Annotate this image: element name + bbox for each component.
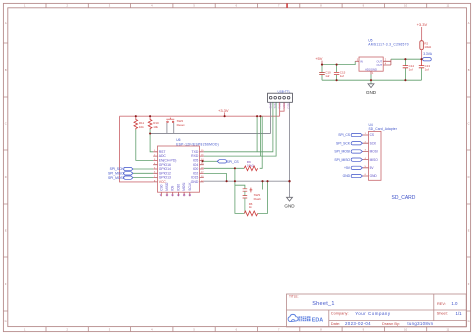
svg-text:G: G bbox=[5, 319, 7, 323]
svg-text:SPI_CS: SPI_CS bbox=[338, 133, 351, 137]
wire RXD to USB bbox=[204, 103, 276, 157]
ground under chip bbox=[284, 181, 295, 208]
svg-text:TITLE:: TITLE: bbox=[289, 295, 299, 299]
net port GND sd bbox=[343, 174, 363, 178]
svg-text:SPI_CS: SPI_CS bbox=[227, 160, 240, 164]
svg-text:10k: 10k bbox=[139, 125, 144, 129]
transistor U6 ESP-12F bbox=[153, 138, 219, 197]
svg-text:IO9: IO9 bbox=[171, 185, 175, 190]
svg-text:Reset: Reset bbox=[177, 123, 185, 127]
svg-text:tung3108vn: tung3108vn bbox=[407, 321, 433, 326]
net port SPI_MOSI bbox=[108, 176, 133, 180]
wire SPI rows bbox=[133, 169, 153, 178]
capacitor C14 bbox=[403, 59, 408, 80]
resistor R8 bbox=[244, 211, 257, 216]
svg-text:OUT: OUT bbox=[377, 63, 383, 67]
switch SW4 bbox=[166, 118, 184, 127]
wire rail drop TXD bbox=[256, 116, 258, 152]
wire main gnd line bbox=[204, 180, 291, 182]
capacitor C10 bbox=[319, 65, 324, 81]
svg-text:C: C bbox=[5, 122, 7, 126]
wire VCC feed bbox=[120, 116, 154, 182]
svg-text:EDA: EDA bbox=[312, 318, 323, 324]
svg-text:1uf: 1uf bbox=[340, 74, 344, 78]
svg-text:MISO: MISO bbox=[165, 182, 169, 191]
wire SPI_CS drop bbox=[234, 168, 236, 181]
net port SPI_SCK bbox=[110, 167, 133, 171]
wire 3.3V out rail bbox=[391, 58, 422, 60]
title block bbox=[287, 294, 467, 327]
net port SPI_CS sd bbox=[338, 133, 362, 137]
resistor R2 bbox=[420, 41, 432, 60]
net port SPI_MISO sd bbox=[334, 158, 362, 162]
svg-text:G: G bbox=[468, 319, 470, 323]
svg-text:+5V: +5V bbox=[315, 56, 323, 61]
svg-text:C: C bbox=[468, 122, 470, 126]
wire rail drop R9 bbox=[260, 116, 263, 168]
svg-text:1uf: 1uf bbox=[325, 74, 329, 78]
capacitor C15 bbox=[334, 65, 339, 81]
svg-text:3.3VA: 3.3VA bbox=[423, 52, 433, 56]
net port SPI_SCK sd bbox=[336, 141, 362, 145]
junction dots chip area bbox=[135, 115, 291, 182]
wire TXD to USB bbox=[204, 103, 273, 152]
power flag +3.3V chip bbox=[218, 108, 229, 116]
svg-text:REV:: REV: bbox=[437, 301, 446, 306]
svg-text:SCK: SCK bbox=[370, 141, 377, 145]
svg-text:B: B bbox=[468, 68, 470, 72]
switch SW3 circuit bbox=[235, 181, 268, 213]
wire SW4 net bbox=[150, 103, 270, 134]
power flag +3.3V bbox=[417, 22, 428, 41]
svg-text:Company:: Company: bbox=[331, 311, 349, 316]
svg-text:A: A bbox=[5, 21, 7, 25]
svg-text:Flash: Flash bbox=[254, 197, 262, 201]
connector U4 SD_Card_Adapter bbox=[363, 123, 398, 180]
net port SPI_MISO bbox=[108, 172, 133, 176]
svg-text:10k: 10k bbox=[153, 125, 158, 129]
svg-text:1/1: 1/1 bbox=[456, 311, 463, 316]
svg-text:A: A bbox=[468, 21, 470, 25]
svg-text:IN: IN bbox=[360, 60, 363, 64]
svg-text:AMS1117-3.3_C296570: AMS1117-3.3_C296570 bbox=[368, 43, 409, 47]
svg-text:1uf: 1uf bbox=[425, 68, 429, 72]
svg-text:USB-TTL: USB-TTL bbox=[278, 89, 291, 93]
svg-text:SPI_MOSI: SPI_MOSI bbox=[334, 150, 350, 154]
wire +5V rail bbox=[322, 61, 355, 64]
EasyEDA logo bbox=[288, 314, 323, 323]
net port SPI_MOSI sd bbox=[334, 150, 362, 154]
svg-text:SPI_SCK: SPI_SCK bbox=[336, 141, 351, 145]
resistor R9 bbox=[204, 160, 258, 171]
connector USB-TTL bbox=[268, 89, 293, 108]
resistor R10 bbox=[148, 116, 159, 129]
svg-text:+3.3V: +3.3V bbox=[417, 22, 428, 27]
svg-text:IO10: IO10 bbox=[176, 184, 180, 191]
svg-text:CS0: CS0 bbox=[159, 184, 163, 190]
ground under regulator bbox=[366, 84, 377, 95]
wire regulator gnd bbox=[370, 75, 372, 84]
svg-text:GND: GND bbox=[366, 90, 377, 95]
svg-text:MISO: MISO bbox=[370, 158, 379, 162]
svg-text:GND: GND bbox=[284, 204, 295, 209]
net port +5V sd bbox=[344, 166, 362, 170]
wire IO2 drop bbox=[204, 174, 227, 182]
svg-text:Your Company: Your Company bbox=[355, 311, 391, 316]
wire R10 to RST bbox=[150, 130, 153, 152]
svg-text:B: B bbox=[5, 68, 7, 72]
resistor R11 bbox=[134, 116, 145, 129]
wire R11 to EN bbox=[136, 130, 153, 161]
power flag +5V bbox=[315, 56, 323, 65]
svg-text:Sheet:: Sheet: bbox=[437, 311, 448, 316]
svg-text:GND: GND bbox=[343, 174, 351, 178]
junction dots regulator bbox=[321, 58, 423, 81]
op-amp U5 AMS1117-3.3 bbox=[355, 39, 409, 76]
svg-text:1.0: 1.0 bbox=[451, 301, 458, 306]
svg-text:OUT: OUT bbox=[377, 60, 383, 64]
svg-text:10kΩ: 10kΩ bbox=[424, 45, 432, 49]
svg-text:SCLK: SCLK bbox=[188, 182, 192, 191]
svg-text:SPI_MOSI: SPI_MOSI bbox=[108, 176, 124, 180]
wire USB GND drop bbox=[289, 103, 291, 182]
svg-text:SPI_MISO: SPI_MISO bbox=[334, 158, 350, 162]
svg-text:GND: GND bbox=[191, 180, 199, 184]
capacitor C13 bbox=[419, 59, 424, 80]
svg-text:Sheet_1: Sheet_1 bbox=[312, 301, 335, 307]
svg-text:MOSI: MOSI bbox=[182, 183, 186, 191]
svg-text:Date:: Date: bbox=[331, 321, 340, 326]
svg-text:+5V: +5V bbox=[344, 166, 351, 170]
svg-text:ADJ/GND: ADJ/GND bbox=[365, 67, 377, 71]
svg-text:SD_CARD: SD_CARD bbox=[392, 195, 416, 201]
net port 3.3VA bbox=[422, 52, 433, 61]
svg-text:E: E bbox=[5, 229, 7, 233]
svg-text:SD_Card_Adapter: SD_Card_Adapter bbox=[369, 127, 398, 131]
svg-text:CS: CS bbox=[370, 133, 374, 137]
wire 3.3V rail bbox=[120, 115, 280, 117]
wire USB VCC red bbox=[280, 103, 285, 117]
svg-text:+3.3V: +3.3V bbox=[218, 108, 229, 113]
svg-text:Drawn By:: Drawn By: bbox=[382, 321, 400, 326]
svg-text:MOSI: MOSI bbox=[370, 150, 378, 154]
svg-text:1uf: 1uf bbox=[409, 68, 413, 72]
wire SW3 right pin drop bbox=[262, 181, 264, 189]
wire bottom gnd rail bbox=[322, 79, 421, 81]
net port SPI_CS bbox=[202, 160, 240, 164]
svg-text:E: E bbox=[468, 229, 470, 233]
svg-text:2023-02-04: 2023-02-04 bbox=[345, 321, 371, 326]
svg-text:GND: GND bbox=[370, 174, 378, 178]
svg-text:D: D bbox=[5, 175, 7, 179]
wire rail drop RXD bbox=[259, 116, 261, 156]
svg-text:D: D bbox=[468, 175, 470, 179]
